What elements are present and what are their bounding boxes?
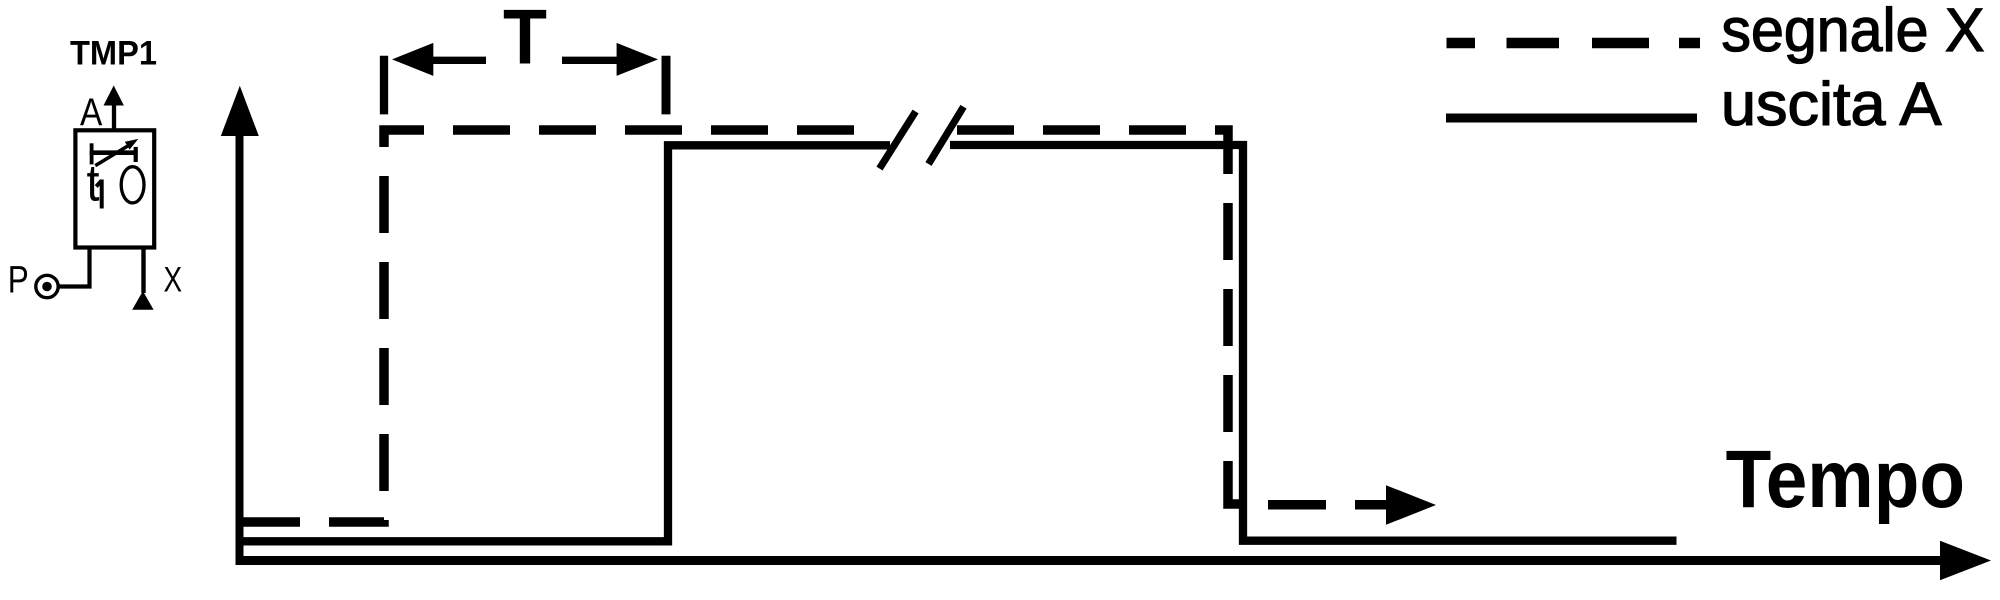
dimension T left arrow shaft bbox=[433, 57, 486, 64]
value axis (vertical) bbox=[236, 130, 244, 565]
pin P wire bbox=[59, 247, 90, 287]
pin P port circle bbox=[36, 275, 58, 297]
dimension T right arrow shaft bbox=[562, 57, 617, 64]
signal X continuation arrow shaft bbox=[1355, 500, 1390, 510]
signal X continuation dash bbox=[1268, 500, 1326, 510]
time axis arrowhead bbox=[1940, 541, 1991, 581]
output A trace: high level right of break, falling edge, low level bbox=[950, 145, 1677, 541]
dimension T right extension tick bbox=[662, 56, 671, 115]
timer value subscript 1 bbox=[96, 180, 102, 209]
pin X pilot triangle bbox=[132, 291, 153, 310]
dimension T right arrowhead bbox=[617, 43, 658, 76]
break mark slash 1 bbox=[880, 112, 916, 169]
timer TMP1 body box bbox=[75, 130, 154, 247]
output A trace: low level, rising edge, high level left of break bbox=[243, 145, 890, 541]
svg-text:P: P bbox=[8, 260, 29, 302]
svg-text:segnale X: segnale X bbox=[1721, 0, 1984, 64]
legend segnale X sample dash 2 bbox=[1507, 38, 1560, 49]
timer value 0 ellipse bbox=[121, 167, 144, 203]
delay-setting bar left tick bbox=[90, 143, 94, 164]
svg-text:T: T bbox=[503, 0, 547, 80]
svg-text:TMP1: TMP1 bbox=[70, 34, 157, 72]
dimension T left arrowhead bbox=[392, 43, 433, 76]
signal X trace: low level, rising edge, high level left of break bbox=[243, 130, 866, 522]
pin P port dot bbox=[42, 282, 52, 292]
value axis arrowhead bbox=[221, 86, 259, 136]
svg-text:X: X bbox=[164, 261, 183, 300]
adjustment arrowhead bbox=[125, 139, 139, 150]
svg-text:A: A bbox=[80, 91, 102, 134]
dimension T left extension tick bbox=[380, 56, 388, 115]
legend segnale X sample dash 1 bbox=[1447, 38, 1476, 49]
signal X continuation arrowhead bbox=[1386, 485, 1436, 525]
pin A arrowhead bbox=[104, 86, 124, 106]
svg-text:Tempo: Tempo bbox=[1726, 434, 1965, 525]
break mark slash 2 bbox=[929, 107, 964, 164]
legend segnale X sample dash 3 bbox=[1592, 38, 1649, 49]
svg-text:uscita A: uscita A bbox=[1721, 70, 1942, 138]
pin A wire bbox=[112, 103, 116, 129]
delay-setting bar bbox=[90, 150, 138, 155]
pin X wire bbox=[141, 247, 145, 293]
legend uscita A sample line bbox=[1446, 114, 1697, 123]
legend segnale X sample dash 4 bbox=[1679, 38, 1700, 49]
time axis (horizontal) bbox=[236, 556, 1943, 565]
adjustment arrow shaft bbox=[95, 144, 131, 166]
delay-setting bar right tick bbox=[134, 147, 138, 162]
signal X trace: high level right of break, falling edge, corner stub bbox=[957, 130, 1239, 504]
